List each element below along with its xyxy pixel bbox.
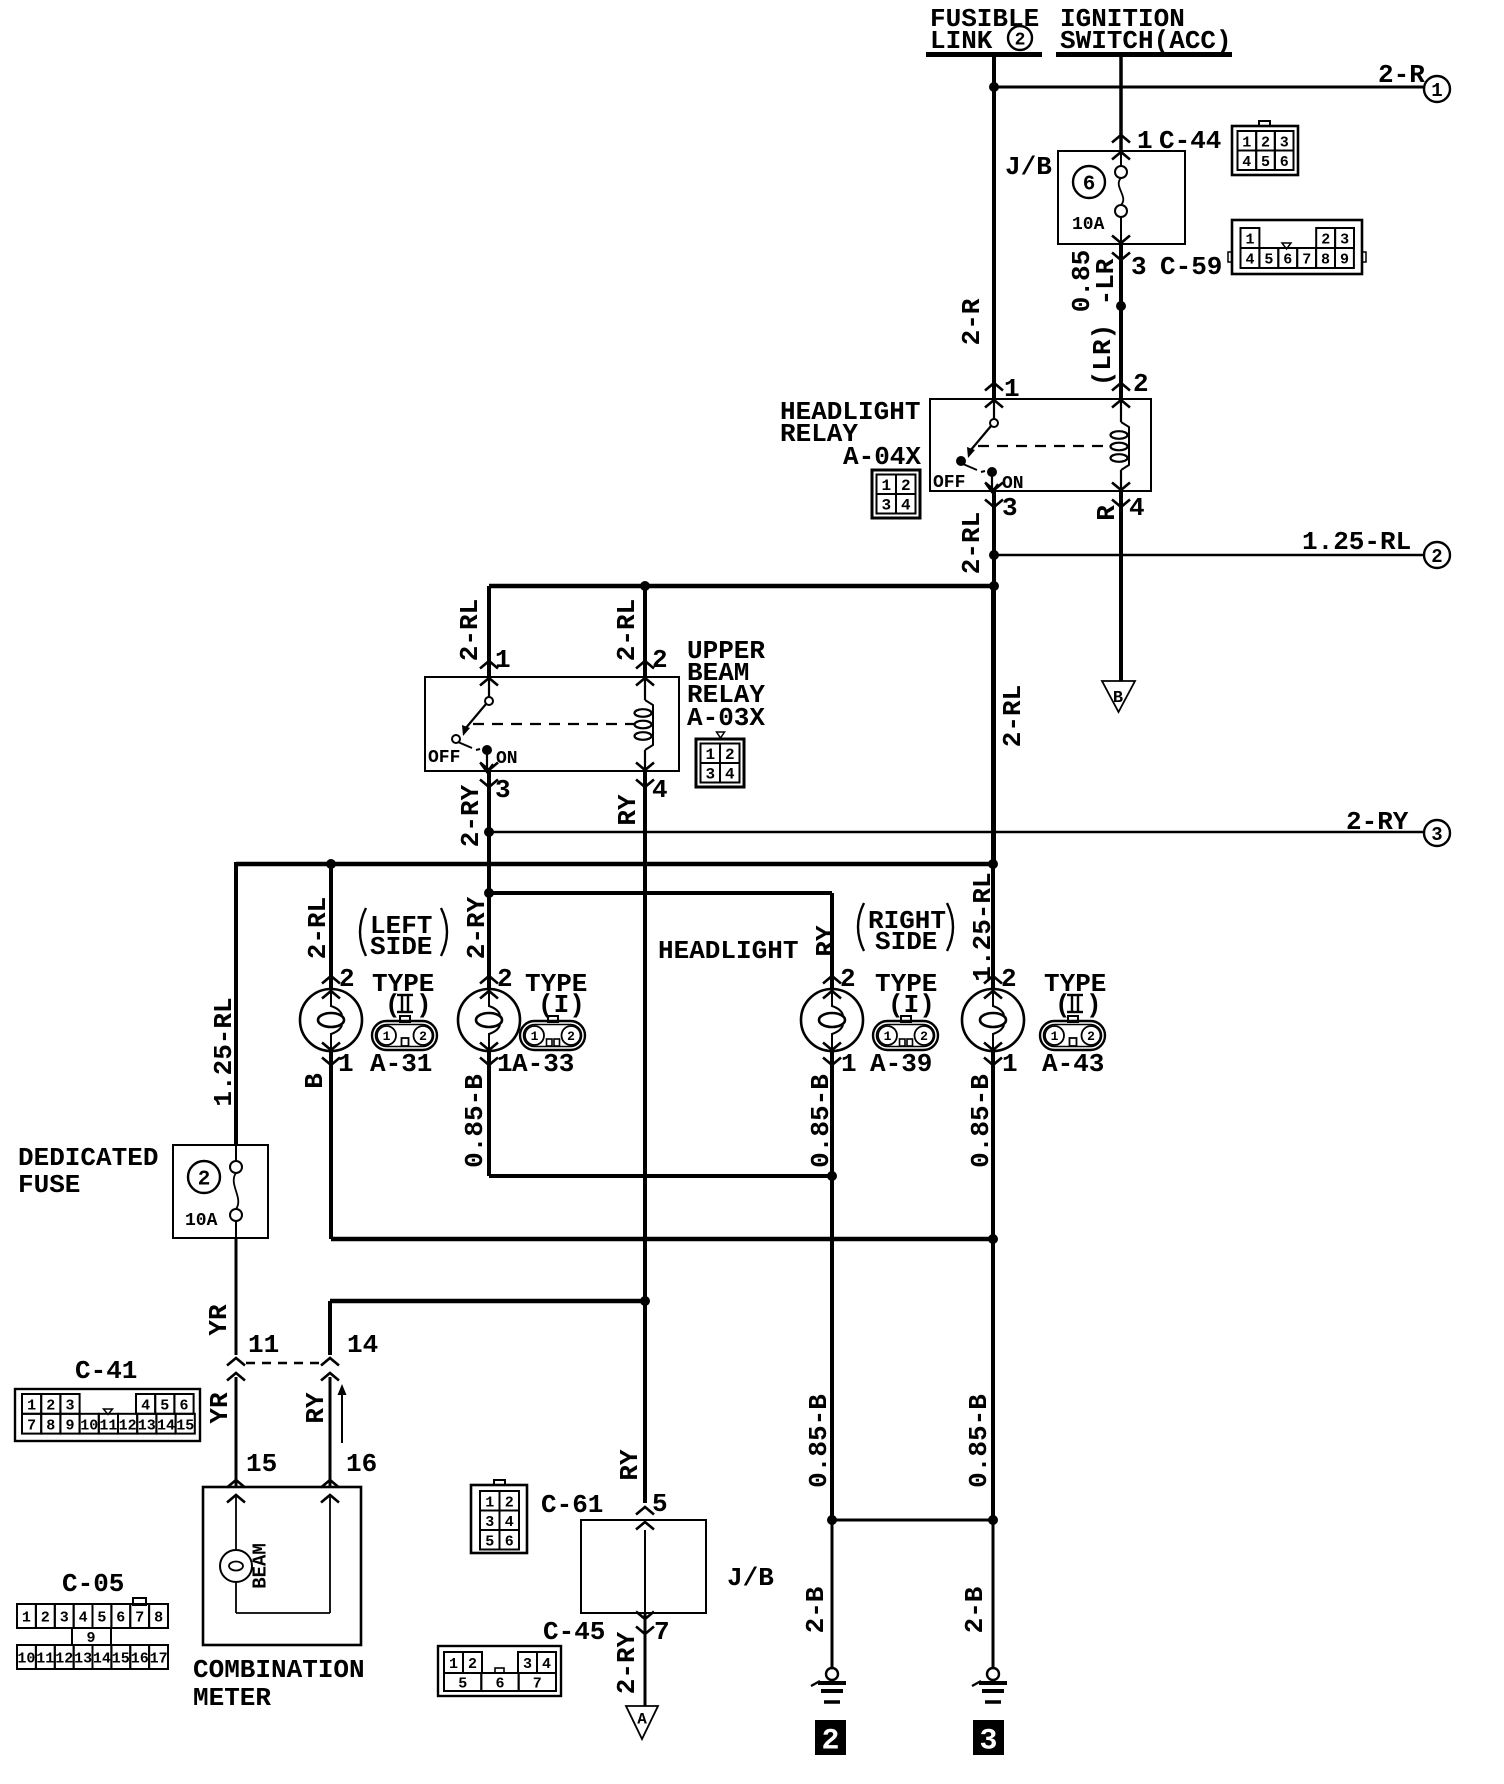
- svg-text:2-RY: 2-RY: [1346, 807, 1409, 837]
- svg-text:1: 1: [383, 1029, 391, 1044]
- svg-text:2: 2: [505, 1494, 514, 1511]
- svg-text:2-RY: 2-RY: [612, 1631, 642, 1694]
- ground black box 3: [973, 1720, 1004, 1758]
- svg-text:3: 3: [705, 766, 715, 784]
- svg-text:4: 4: [1242, 154, 1251, 171]
- svg-text:DEDICATED: DEDICATED: [18, 1143, 158, 1173]
- svg-text:1.25-RL: 1.25-RL: [968, 872, 998, 981]
- svg-text:HEADLIGHT: HEADLIGHT: [658, 936, 798, 966]
- svg-text:2: 2: [468, 1656, 477, 1673]
- wire 2-RL feed to upper beam relay: [455, 582, 998, 686]
- svg-text:15: 15: [176, 1417, 194, 1434]
- node circle 2 (page link): [1424, 542, 1450, 568]
- svg-text:1: 1: [841, 1049, 857, 1079]
- svg-text:1: 1: [705, 746, 715, 764]
- wire ignition switch to J/B pin 1 C-44: [1112, 57, 1221, 160]
- svg-text:13: 13: [138, 1417, 156, 1434]
- svg-text:2: 2: [419, 1029, 427, 1044]
- svg-text:5: 5: [652, 1489, 668, 1519]
- label C-45: [543, 1617, 605, 1647]
- wire RY into J/B pin 5: [615, 1449, 668, 1529]
- svg-text:3: 3: [1131, 252, 1147, 282]
- svg-text:SIDE: SIDE: [370, 932, 432, 962]
- svg-text:1: 1: [1242, 134, 1251, 151]
- label TYPE (I) A-33: [525, 969, 587, 1020]
- svg-text:2: 2: [1261, 134, 1270, 151]
- wire 1.25-RL down right column to A-43: [968, 586, 998, 989]
- wire 0.85-B from A-33: [460, 1051, 490, 1176]
- svg-text:1: 1: [1051, 1029, 1059, 1044]
- svg-text:9: 9: [65, 1417, 74, 1434]
- svg-text:-LR: -LR: [1091, 258, 1121, 305]
- svg-text:12: 12: [119, 1417, 137, 1434]
- svg-text:16: 16: [346, 1449, 377, 1479]
- svg-text:2-RY: 2-RY: [462, 896, 492, 959]
- svg-text:4: 4: [542, 1656, 551, 1673]
- svg-text:7: 7: [135, 1610, 144, 1627]
- svg-text:C-59: C-59: [1160, 252, 1222, 282]
- svg-text:1.25-RL: 1.25-RL: [209, 997, 239, 1106]
- svg-text:1: 1: [27, 1397, 36, 1414]
- svg-text:4: 4: [901, 497, 911, 515]
- svg-text:2-RL: 2-RL: [303, 897, 333, 959]
- svg-text:2: 2: [725, 746, 735, 764]
- wire 0.85-B from A-43: [964, 1051, 996, 1520]
- svg-text:J/B: J/B: [1005, 152, 1052, 182]
- svg-text:ON: ON: [1002, 474, 1024, 494]
- svg-text:B: B: [300, 1073, 330, 1089]
- svg-text:3: 3: [495, 775, 511, 805]
- svg-text:1: 1: [1431, 80, 1442, 102]
- svg-text:OFF: OFF: [933, 473, 965, 493]
- svg-text:7: 7: [533, 1676, 542, 1693]
- svg-text:2: 2: [198, 1169, 211, 1192]
- connector icon A-33: [512, 1016, 585, 1079]
- svg-text:6: 6: [179, 1397, 188, 1414]
- svg-text:ON: ON: [496, 749, 518, 769]
- svg-text:7: 7: [27, 1417, 36, 1434]
- svg-text:2-RL: 2-RL: [998, 685, 1028, 747]
- svg-text:2: 2: [840, 964, 856, 994]
- wire 2-RL from relay pin 3: [957, 483, 1028, 865]
- svg-text:YR: YR: [205, 1392, 235, 1424]
- svg-text:2: 2: [1321, 232, 1330, 249]
- svg-text:3: 3: [881, 497, 891, 515]
- wire headlight box bottom (A-33 to A-39 ground tie): [489, 1172, 837, 1181]
- wire YR from fuse to C-41 pin 11: [204, 1238, 279, 1360]
- svg-text:): ): [416, 990, 432, 1020]
- label HEADLIGHT: [658, 936, 798, 966]
- wire RY branch to combination meter pin 14: [330, 1297, 650, 1356]
- svg-text:RY: RY: [301, 1392, 331, 1424]
- svg-text:RY: RY: [615, 1449, 645, 1481]
- node IGNITION SWITCH (ACC) supply: [1056, 4, 1232, 57]
- svg-text:B: B: [1113, 689, 1123, 708]
- svg-text:A-33: A-33: [512, 1049, 574, 1079]
- svg-text:8: 8: [46, 1417, 55, 1434]
- svg-text:2: 2: [1001, 964, 1017, 994]
- svg-text:1: 1: [884, 1029, 892, 1044]
- relay HEADLIGHT RELAY A-04X: [780, 374, 1151, 494]
- svg-text:2-RL: 2-RL: [455, 599, 485, 661]
- lamp headlight right TYPE II A-43: [962, 964, 1024, 1079]
- svg-text:YR: YR: [204, 1304, 234, 1336]
- svg-text:6: 6: [116, 1610, 125, 1627]
- node FUSIBLE LINK 2 supply: [926, 4, 1042, 57]
- wire B from A-31 to ground bus: [300, 1051, 331, 1239]
- svg-text:3: 3: [1431, 824, 1442, 846]
- svg-text:14: 14: [93, 1651, 111, 1668]
- svg-text:COMBINATION: COMBINATION: [193, 1655, 365, 1685]
- svg-text:4: 4: [1245, 252, 1254, 269]
- svg-text:3: 3: [523, 1656, 532, 1673]
- label (LEFT SIDE): [360, 908, 447, 962]
- svg-text:RY: RY: [811, 925, 841, 957]
- wire 2-RY from J/B pin 7 C-45 to triangle A: [612, 1612, 670, 1707]
- svg-text:4: 4: [725, 766, 735, 784]
- svg-text:3: 3: [485, 1514, 494, 1531]
- svg-text:1: 1: [531, 1029, 539, 1044]
- svg-text:C-61: C-61: [541, 1490, 603, 1520]
- svg-text:2: 2: [1431, 546, 1442, 568]
- svg-text:2-R: 2-R: [957, 298, 987, 345]
- svg-text:3: 3: [60, 1610, 69, 1627]
- svg-text:14: 14: [157, 1417, 175, 1434]
- svg-text:R: R: [1092, 505, 1122, 521]
- svg-text:3: 3: [1340, 232, 1349, 249]
- junction block J/B (top) with fuse 6 10A: [1005, 151, 1185, 244]
- svg-text:SIDE: SIDE: [875, 927, 937, 957]
- svg-text:16: 16: [131, 1651, 149, 1668]
- node headlight RY bus (top edge): [462, 889, 841, 990]
- svg-text:C-05: C-05: [62, 1569, 124, 1599]
- svg-text:2-B: 2-B: [960, 1586, 990, 1633]
- svg-text:11: 11: [99, 1417, 117, 1434]
- svg-text:2-RY: 2-RY: [456, 784, 486, 847]
- svg-text:A-43: A-43: [1042, 1049, 1104, 1079]
- connector icon C-41: [15, 1389, 200, 1441]
- svg-text:LINK: LINK: [930, 26, 993, 56]
- svg-text:A: A: [637, 1711, 647, 1729]
- svg-text:RY: RY: [613, 794, 643, 826]
- svg-text:1: 1: [1245, 232, 1254, 249]
- relay UPPER BEAM RELAY A-03X: [425, 636, 765, 773]
- svg-text:7: 7: [654, 1617, 670, 1647]
- wire 2-RY to circle 3: [485, 807, 1425, 837]
- svg-text:10A: 10A: [185, 1211, 218, 1231]
- svg-text:4: 4: [1129, 493, 1145, 523]
- svg-text:5: 5: [458, 1676, 467, 1693]
- svg-text:2: 2: [1133, 369, 1149, 399]
- svg-text:2: 2: [497, 964, 513, 994]
- wire RY from upper beam relay pin 4 down to J/B pin 5: [613, 763, 668, 1504]
- svg-text:0.85-B: 0.85-B: [460, 1074, 490, 1168]
- connector icon A-43: [1040, 1016, 1105, 1079]
- svg-text:4: 4: [141, 1397, 150, 1414]
- svg-text:8: 8: [154, 1610, 163, 1627]
- wire ground tie 2-B: [828, 1516, 998, 1525]
- svg-text:2-RL: 2-RL: [612, 599, 642, 661]
- svg-text:2: 2: [567, 1029, 575, 1044]
- label TYPE (II) A-43: [1044, 969, 1106, 1020]
- svg-text:6: 6: [505, 1533, 514, 1550]
- svg-text:3: 3: [1002, 493, 1018, 523]
- svg-text:11: 11: [36, 1651, 54, 1668]
- wire 0.85-B from A-39: [804, 1051, 836, 1520]
- svg-text:17: 17: [150, 1651, 168, 1668]
- svg-text:10A: 10A: [1072, 215, 1105, 235]
- svg-text:0.85-B: 0.85-B: [806, 1074, 836, 1168]
- svg-text:6: 6: [1083, 174, 1096, 197]
- svg-text:6: 6: [1280, 154, 1289, 171]
- svg-text:0.85-B: 0.85-B: [804, 1394, 834, 1488]
- svg-text:5: 5: [1261, 154, 1270, 171]
- svg-text:1: 1: [881, 477, 891, 495]
- connector icon C-61: [471, 1480, 527, 1553]
- node triangle B: [1102, 681, 1135, 712]
- svg-text:1: 1: [485, 1494, 494, 1511]
- svg-text:14: 14: [347, 1330, 378, 1360]
- ground black box 2: [815, 1720, 846, 1758]
- svg-text:METER: METER: [193, 1683, 271, 1713]
- svg-text:1.25-RL: 1.25-RL: [1302, 527, 1411, 557]
- connector icon A-31: [370, 1016, 437, 1079]
- svg-text:2: 2: [652, 645, 668, 675]
- connector icon C-45: [438, 1646, 561, 1696]
- svg-text:A-04X: A-04X: [843, 442, 921, 472]
- svg-text:2: 2: [1015, 30, 1026, 50]
- connector icon C-59: [1228, 220, 1366, 274]
- svg-text:A-39: A-39: [870, 1049, 932, 1079]
- connector C-41 in-line (pins 11/14 to 15/16): [227, 1330, 378, 1381]
- wire 2-R from fusible link to connector 1: [957, 57, 1425, 408]
- svg-text:8: 8: [1321, 252, 1330, 269]
- svg-text:FUSE: FUSE: [18, 1170, 80, 1200]
- svg-text:2: 2: [821, 1724, 839, 1758]
- svg-text:11: 11: [248, 1330, 279, 1360]
- svg-text:A-03X: A-03X: [687, 703, 765, 733]
- svg-text:J/B: J/B: [727, 1563, 774, 1593]
- label COMBINATION METER: [193, 1655, 365, 1713]
- svg-text:2: 2: [41, 1610, 50, 1627]
- wire 2-RY from upper beam relay pin 3: [456, 763, 511, 894]
- node triangle A: [626, 1706, 658, 1739]
- label C-61: [541, 1490, 603, 1520]
- svg-text:): ): [1086, 990, 1102, 1020]
- svg-text:1: 1: [1002, 1049, 1018, 1079]
- svg-text:(LR): (LR): [1088, 324, 1118, 386]
- svg-text:3: 3: [65, 1397, 74, 1414]
- svg-text:1: 1: [22, 1610, 31, 1627]
- wire R from relay pin 4 to triangle B: [1092, 483, 1145, 682]
- svg-text:13: 13: [74, 1651, 92, 1668]
- fuse DEDICATED FUSE 2 10A: [173, 1145, 268, 1238]
- svg-text:2: 2: [901, 477, 911, 495]
- wire 2-B left with ground 2: [801, 1520, 846, 1702]
- svg-text:7: 7: [1302, 252, 1311, 269]
- connector icon A-03X: [696, 732, 744, 787]
- svg-text:2-B: 2-B: [801, 1586, 831, 1633]
- svg-text:SWITCH(ACC): SWITCH(ACC): [1060, 26, 1232, 56]
- junction block J/B (bottom): [581, 1520, 774, 1613]
- label (RIGHT SIDE): [858, 903, 953, 957]
- svg-text:6: 6: [495, 1676, 504, 1693]
- label C-05: [62, 1569, 124, 1599]
- svg-text:2: 2: [46, 1397, 55, 1414]
- connector icon C-44: [1232, 121, 1298, 175]
- wire RY from C-41 pin 16 to meter: [301, 1377, 377, 1503]
- wire 1.25-RL to circle 2: [990, 527, 1425, 560]
- svg-text:2: 2: [1087, 1029, 1095, 1044]
- label TYPE (I) A-39: [875, 969, 937, 1020]
- svg-text:4: 4: [505, 1514, 514, 1531]
- svg-text:A-31: A-31: [370, 1049, 432, 1079]
- wire 2-B right with ground 3: [960, 1520, 1007, 1702]
- svg-text:4: 4: [652, 775, 668, 805]
- svg-text:5: 5: [1264, 252, 1273, 269]
- svg-text:BEAM: BEAM: [250, 1543, 272, 1589]
- wire ground bus A-31/A-43: [331, 1235, 998, 1244]
- svg-text:1: 1: [495, 645, 511, 675]
- svg-text:2: 2: [920, 1029, 928, 1044]
- svg-text:C-41: C-41: [75, 1356, 137, 1386]
- svg-text:2: 2: [339, 964, 355, 994]
- svg-text:5: 5: [97, 1610, 106, 1627]
- svg-text:6: 6: [1283, 252, 1292, 269]
- svg-text:15: 15: [246, 1449, 277, 1479]
- svg-text:(I): (I): [538, 990, 585, 1020]
- svg-text:9: 9: [1340, 252, 1349, 269]
- svg-text:2-RL: 2-RL: [957, 512, 987, 574]
- svg-text:1: 1: [497, 1049, 513, 1079]
- svg-text:15: 15: [112, 1651, 130, 1668]
- svg-text:10: 10: [80, 1417, 98, 1434]
- label C-41: [75, 1356, 137, 1386]
- svg-text:OFF: OFF: [428, 748, 460, 768]
- meter COMBINATION METER with BEAM lamp: [203, 1487, 361, 1645]
- wire YR from C-41 pin 15 to meter: [205, 1377, 277, 1503]
- connector icon A-39: [870, 1016, 938, 1079]
- svg-text:C-45: C-45: [543, 1617, 605, 1647]
- lamp headlight left TYPE I A-33: [458, 964, 520, 1079]
- svg-text:5: 5: [160, 1397, 169, 1414]
- svg-text:5: 5: [485, 1533, 494, 1550]
- svg-text:0.85-B: 0.85-B: [966, 1074, 996, 1168]
- label TYPE (II) A-31: [372, 969, 434, 1020]
- svg-text:0.85-B: 0.85-B: [964, 1394, 994, 1488]
- connector icon C-05: [17, 1598, 168, 1669]
- wire 0.85-LR from J/B pin 3 C-59 to headlight relay pin 2: [1067, 236, 1222, 408]
- lamp headlight right TYPE I A-39: [801, 964, 863, 1079]
- label DEDICATED FUSE: [18, 1143, 158, 1200]
- svg-text:3: 3: [1280, 134, 1289, 151]
- svg-text:12: 12: [55, 1651, 73, 1668]
- lamp headlight left TYPE II A-31: [300, 964, 362, 1079]
- svg-text:1: 1: [449, 1656, 458, 1673]
- wire 2-RL bus to left (A-31 and dedicated fuse): [209, 860, 997, 1146]
- node circle 1 (page link): [1424, 76, 1450, 102]
- svg-text:10: 10: [17, 1651, 35, 1668]
- svg-text:1: 1: [338, 1049, 354, 1079]
- node circle 3 (page link): [1424, 820, 1450, 846]
- svg-text:1: 1: [1004, 374, 1020, 404]
- svg-text:2-R: 2-R: [1378, 60, 1425, 90]
- svg-text:3: 3: [979, 1724, 997, 1758]
- connector icon A-04X: [872, 470, 920, 518]
- svg-text:4: 4: [79, 1610, 88, 1627]
